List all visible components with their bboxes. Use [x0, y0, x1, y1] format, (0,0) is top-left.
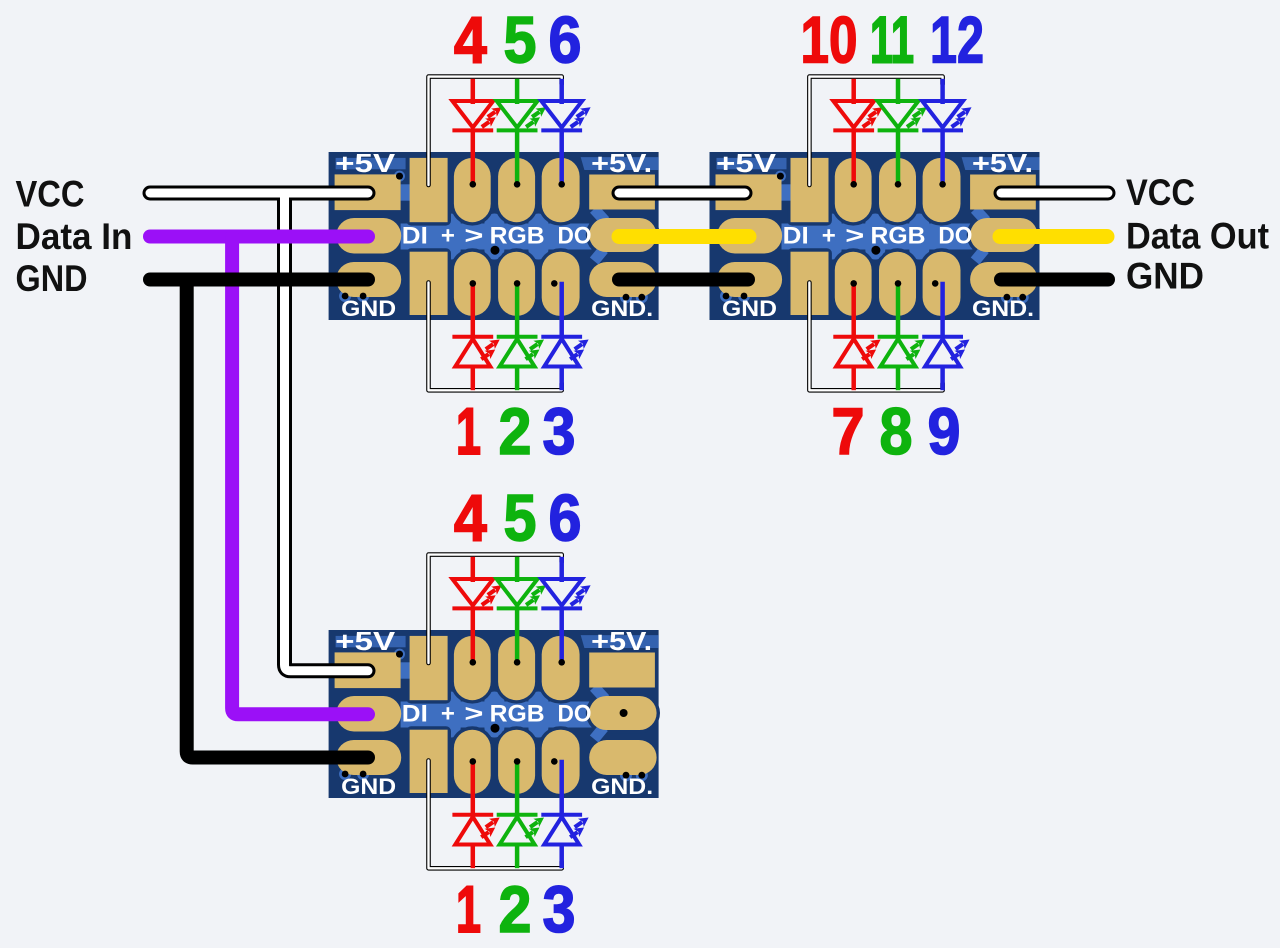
wire GND in — [150, 273, 368, 287]
wire VCC out — [1001, 189, 1108, 198]
wire data link M1-M2 yellow — [619, 229, 749, 244]
svg-text:GND: GND — [16, 258, 88, 299]
wire VCC link M1-M2 — [619, 189, 745, 198]
svg-text:11: 11 — [870, 2, 914, 76]
wire VCC branch to M3 — [285, 193, 369, 671]
svg-text:10: 10 — [801, 2, 858, 76]
wire VCC network outline — [150, 193, 1108, 671]
svg-text:8: 8 — [880, 394, 913, 468]
module M3 with LEDs 1-6 — [329, 480, 660, 946]
svg-text:Data Out: Data Out — [1126, 216, 1269, 257]
module M1 with LEDs 1-6 — [329, 2, 660, 468]
wire VCC in — [150, 189, 368, 198]
svg-text:9: 9 — [928, 394, 961, 468]
wire GND out — [1001, 273, 1108, 287]
svg-text:VCC: VCC — [16, 174, 85, 215]
wire GND branch to M3 — [187, 280, 368, 758]
svg-text:VCC: VCC — [1126, 172, 1195, 213]
wire VCC link M1-M2 — [619, 186, 745, 201]
wire Data In purple — [150, 230, 368, 244]
wire VCC branch to M3 — [285, 193, 369, 671]
wire VCC network fill — [150, 193, 1108, 671]
wire VCC out — [1001, 186, 1108, 201]
svg-text:GND: GND — [1126, 256, 1204, 297]
svg-text:12: 12 — [930, 2, 984, 76]
wire VCC in — [150, 186, 368, 201]
module M2 — [710, 77, 1041, 391]
svg-text:Data In: Data In — [16, 216, 133, 257]
svg-text:7: 7 — [832, 394, 865, 468]
wire Data Out yellow — [1000, 229, 1107, 244]
wire data branch to M3 purple — [232, 237, 368, 715]
wire GND link M1-M2 — [619, 273, 748, 287]
